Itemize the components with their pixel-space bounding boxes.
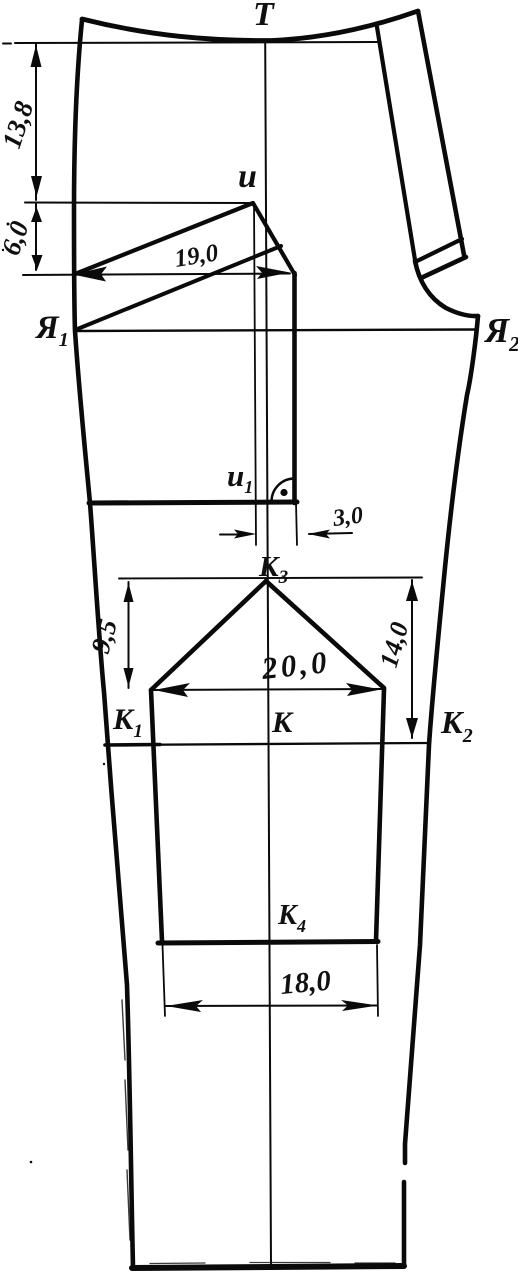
dart left leg from point i bbox=[75, 203, 253, 274]
svg-text:К: К bbox=[271, 706, 294, 739]
svg-text:и1: и1 bbox=[227, 458, 253, 497]
arrow 6,0 bottom bbox=[32, 255, 43, 270]
arrow 14,0 bottom bbox=[406, 718, 418, 738]
arrow 13,8 top bbox=[31, 45, 42, 67]
seat slant line from Ya1 bbox=[75, 246, 281, 330]
dimension 3,0 left segment bbox=[220, 534, 238, 536]
dart right leg from point i bbox=[253, 203, 295, 275]
arrow 19,0 left bbox=[73, 267, 107, 282]
line at K3 level bbox=[119, 578, 422, 579]
arrow 18,0 right bbox=[341, 1000, 378, 1011]
svg-text:К2: К2 bbox=[440, 704, 473, 747]
arrow 20,0 left bbox=[154, 683, 190, 697]
svg-text:3,0: 3,0 bbox=[331, 502, 365, 532]
extension below K4 right bbox=[377, 945, 378, 1016]
knee line K1-K2 bbox=[105, 743, 427, 745]
svg-text:Т: Т bbox=[253, 0, 275, 33]
arrow 20,0 right bbox=[346, 683, 381, 696]
svg-text:и: и bbox=[238, 158, 257, 195]
right angle dot bbox=[280, 489, 287, 496]
fly strip right edge top right contour bbox=[418, 11, 464, 255]
left contour rough double line bbox=[96, 600, 130, 1240]
arrow 13,8 bottom bbox=[31, 176, 42, 197]
arrow 3,0 pointing left bbox=[308, 530, 330, 539]
fly strip band upper line bbox=[415, 239, 462, 262]
arrow 6,0 top bbox=[31, 207, 42, 222]
dimension 19,0 line bbox=[23, 274, 290, 276]
bottom hem line bbox=[132, 1266, 404, 1268]
svg-text:К4: К4 bbox=[277, 900, 306, 936]
extension below K4 left bbox=[163, 945, 166, 1016]
vertical i-i1 bbox=[254, 203, 256, 545]
fly strip left edge bbox=[377, 27, 415, 260]
dimension 18,0 line bbox=[166, 1005, 377, 1008]
thick line through i1 bbox=[89, 502, 297, 503]
scan specks bbox=[2, 223, 105, 1164]
left side seam contour bbox=[74, 20, 133, 1267]
triangle right leg from K3 bbox=[266, 581, 384, 688]
dimension 9,5 line bbox=[128, 582, 130, 688]
svg-text:6,0: 6,0 bbox=[0, 217, 35, 259]
back seam vertical bbox=[292, 273, 297, 503]
svg-text:18,0: 18,0 bbox=[279, 965, 332, 1001]
knee box right side bbox=[376, 689, 384, 941]
dimension 6,0 line bbox=[35, 204, 37, 270]
dimension 20,0 line bbox=[152, 689, 383, 690]
svg-text:Я2: Я2 bbox=[483, 311, 518, 356]
svg-text:19,0: 19,0 bbox=[173, 239, 221, 273]
dimension 14,0 line bbox=[411, 580, 413, 738]
svg-text:К3: К3 bbox=[258, 551, 288, 588]
top dimension extension line bbox=[3, 42, 377, 44]
arrow 18,0 left bbox=[166, 1000, 203, 1012]
arrow 14,0 top bbox=[406, 581, 418, 601]
svg-text:13,8: 13,8 bbox=[0, 97, 39, 152]
right side seam lower part bbox=[402, 1182, 407, 1266]
line at i level bbox=[25, 202, 253, 205]
hip line Ya1-Ya2 bbox=[75, 330, 476, 332]
arrow 19,0 right bbox=[256, 266, 290, 279]
dimension 13,8 line bbox=[35, 44, 37, 200]
svg-text:Я1: Я1 bbox=[35, 310, 69, 351]
arrow 3,0 pointing right bbox=[234, 530, 256, 539]
right side seam upper part bbox=[405, 316, 478, 1163]
arrow 9,5 bottom bbox=[124, 668, 134, 687]
knee box left side bbox=[151, 690, 162, 941]
fly strip band lower line bbox=[421, 257, 466, 278]
svg-text:20,0: 20,0 bbox=[259, 644, 332, 686]
triangle left leg from K3 bbox=[151, 581, 266, 690]
right angle arc bbox=[272, 479, 295, 502]
dimension 3,0 right segment bbox=[309, 533, 352, 534]
line K4 bbox=[158, 942, 378, 944]
vertical extension below i1 line right bbox=[296, 503, 297, 545]
waist top curve T bbox=[82, 11, 418, 41]
hem rough top edge bbox=[150, 1263, 395, 1264]
center crease line bbox=[265, 42, 271, 1268]
svg-text:К1: К1 bbox=[112, 703, 143, 742]
arrow 9,5 top bbox=[124, 583, 134, 602]
crotch curve to point Ya2 bbox=[415, 261, 478, 316]
svg-text:14,0: 14,0 bbox=[374, 619, 414, 671]
svg-text:9,5: 9,5 bbox=[85, 616, 123, 657]
